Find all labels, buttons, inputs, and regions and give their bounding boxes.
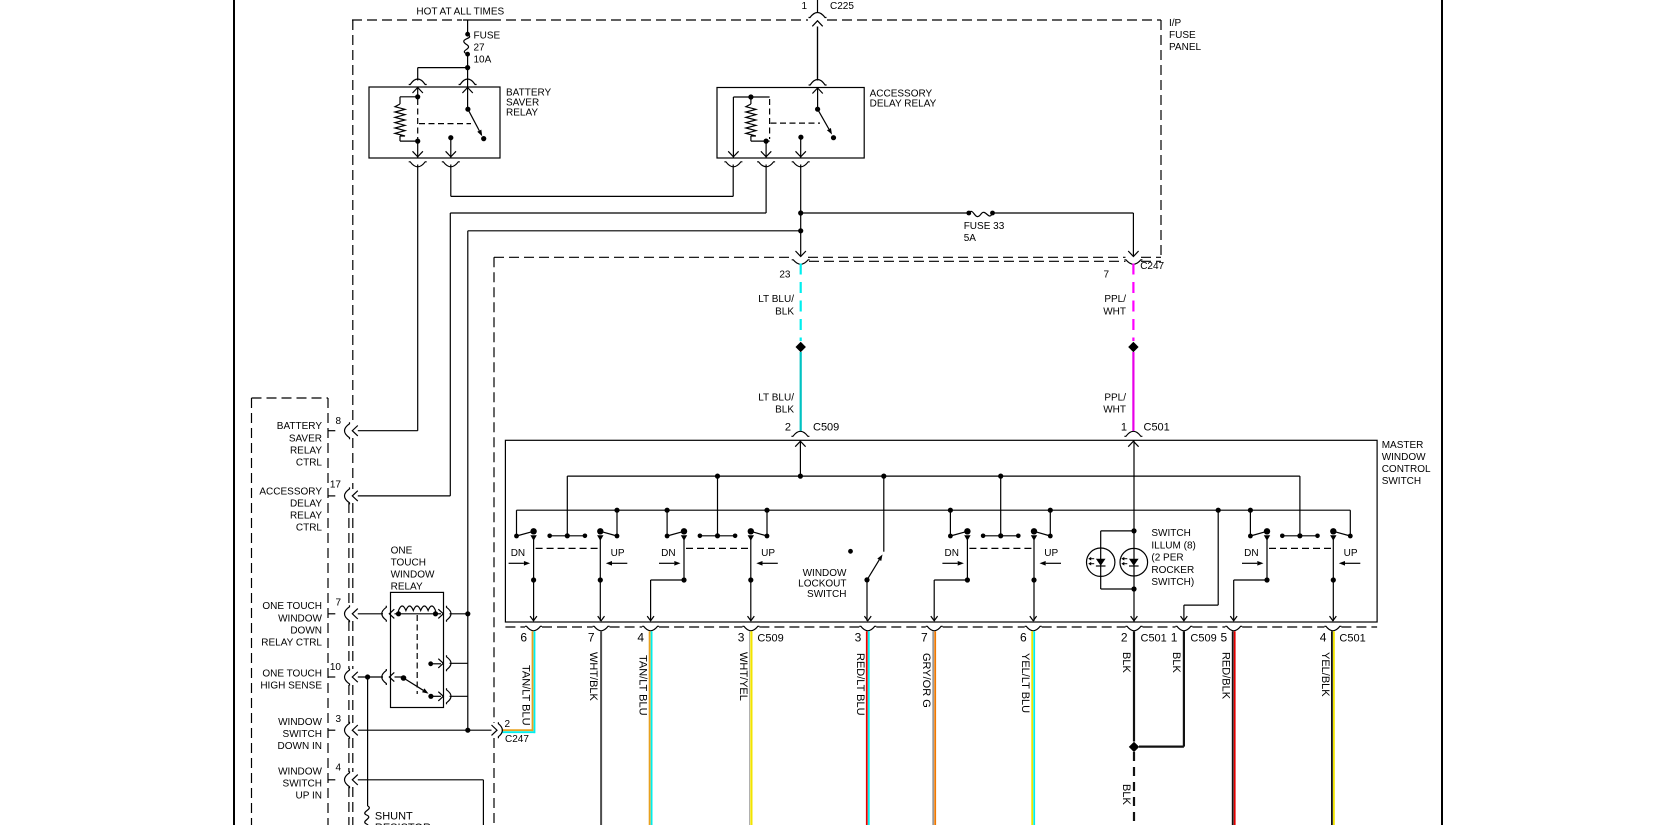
- svg-text:2: 2: [1121, 631, 1128, 645]
- svg-text:MASTER: MASTER: [1382, 440, 1424, 451]
- svg-text:SAVER: SAVER: [289, 433, 322, 444]
- svg-text:WHT: WHT: [1103, 306, 1126, 317]
- svg-text:BLK: BLK: [775, 306, 794, 317]
- svg-text:6: 6: [520, 631, 527, 645]
- svg-text:GRY/OR G: GRY/OR G: [920, 653, 932, 708]
- svg-text:C509: C509: [1190, 633, 1216, 645]
- svg-text:UP: UP: [1344, 548, 1358, 559]
- svg-text:7: 7: [921, 631, 928, 645]
- svg-text:27: 27: [474, 43, 486, 54]
- svg-text:DN: DN: [1244, 548, 1258, 559]
- svg-text:3: 3: [335, 714, 341, 725]
- svg-text:4: 4: [1320, 631, 1327, 645]
- svg-text:RED/LT BLU: RED/LT BLU: [854, 653, 866, 716]
- svg-text:BLK: BLK: [1120, 784, 1132, 805]
- svg-text:TAN/LT BLU: TAN/LT BLU: [637, 655, 649, 716]
- svg-text:C501: C501: [1144, 422, 1170, 434]
- svg-text:6: 6: [1020, 631, 1027, 645]
- svg-text:CTRL: CTRL: [296, 458, 323, 469]
- svg-text:UP: UP: [1044, 548, 1058, 559]
- svg-text:PPL/: PPL/: [1104, 393, 1126, 404]
- svg-text:4: 4: [637, 631, 644, 645]
- svg-text:C501: C501: [1339, 633, 1365, 645]
- svg-text:FUSE: FUSE: [474, 31, 501, 42]
- svg-text:DN: DN: [511, 548, 525, 559]
- svg-text:CTRL: CTRL: [296, 523, 323, 534]
- svg-text:5A: 5A: [964, 233, 977, 244]
- svg-text:RELAY: RELAY: [290, 511, 322, 522]
- svg-text:4: 4: [335, 763, 341, 774]
- svg-text:PPL/: PPL/: [1104, 294, 1126, 305]
- svg-text:WINDOW: WINDOW: [278, 717, 322, 728]
- svg-text:WINDOW: WINDOW: [1382, 452, 1426, 463]
- svg-text:RED/BLK: RED/BLK: [1220, 652, 1232, 700]
- svg-text:3: 3: [855, 631, 862, 645]
- svg-text:ILLUM (8): ILLUM (8): [1151, 540, 1195, 551]
- svg-text:SWITCH: SWITCH: [1151, 528, 1190, 539]
- svg-text:DOWN IN: DOWN IN: [278, 741, 322, 752]
- svg-text:ONE TOUCH: ONE TOUCH: [262, 668, 322, 679]
- svg-text:1: 1: [801, 1, 807, 12]
- svg-text:RELAY: RELAY: [506, 108, 538, 119]
- svg-text:SWITCH: SWITCH: [1382, 476, 1421, 487]
- svg-text:WHT: WHT: [1103, 405, 1126, 416]
- svg-text:YEL/LT BLU: YEL/LT BLU: [1019, 653, 1031, 713]
- svg-text:SWITCH: SWITCH: [283, 729, 322, 740]
- svg-text:DELAY RELAY: DELAY RELAY: [870, 98, 937, 109]
- svg-text:WINDOW: WINDOW: [803, 568, 847, 579]
- svg-text:WINDOW: WINDOW: [391, 570, 435, 581]
- svg-text:FUSE 33: FUSE 33: [964, 221, 1005, 232]
- svg-text:DELAY: DELAY: [290, 498, 322, 509]
- svg-text:RELAY: RELAY: [290, 445, 322, 456]
- svg-text:10A: 10A: [474, 55, 492, 66]
- svg-text:WINDOW: WINDOW: [278, 613, 322, 624]
- svg-text:C501: C501: [1141, 633, 1167, 645]
- svg-text:10: 10: [330, 662, 342, 673]
- svg-text:LOCKOUT: LOCKOUT: [798, 579, 846, 590]
- svg-text:SWITCH: SWITCH: [807, 589, 846, 600]
- svg-text:WINDOW: WINDOW: [278, 767, 322, 778]
- svg-text:WHT/YEL: WHT/YEL: [737, 652, 749, 701]
- svg-text:DN: DN: [945, 548, 959, 559]
- svg-text:HIGH SENSE: HIGH SENSE: [260, 681, 322, 692]
- svg-text:1: 1: [1121, 422, 1127, 434]
- svg-text:LT BLU/: LT BLU/: [758, 294, 794, 305]
- svg-text:7: 7: [588, 631, 595, 645]
- svg-text:17: 17: [330, 480, 342, 491]
- svg-text:8: 8: [335, 416, 341, 427]
- svg-text:C247: C247: [1140, 261, 1164, 272]
- svg-text:BLK: BLK: [1170, 652, 1182, 673]
- svg-text:DOWN: DOWN: [290, 625, 322, 636]
- svg-text:2: 2: [785, 422, 791, 434]
- svg-text:RELAY: RELAY: [391, 582, 423, 593]
- svg-text:UP: UP: [761, 548, 775, 559]
- svg-text:BLK: BLK: [1120, 652, 1132, 673]
- svg-text:HOT AT ALL TIMES: HOT AT ALL TIMES: [416, 7, 504, 18]
- svg-text:(2 PER: (2 PER: [1151, 553, 1183, 564]
- svg-text:BATTERY: BATTERY: [277, 421, 323, 432]
- svg-text:RELAY CTRL: RELAY CTRL: [261, 638, 322, 649]
- svg-text:1: 1: [1171, 631, 1178, 645]
- svg-text:C247: C247: [505, 734, 529, 745]
- svg-text:SWITCH): SWITCH): [1151, 577, 1194, 588]
- svg-text:CONTROL: CONTROL: [1382, 464, 1431, 475]
- svg-text:LT BLU/: LT BLU/: [758, 393, 794, 404]
- svg-text:TAN/LT BLU: TAN/LT BLU: [520, 665, 532, 726]
- svg-text:ACCESSORY: ACCESSORY: [259, 486, 322, 497]
- svg-text:5: 5: [1221, 631, 1228, 645]
- svg-text:ONE: ONE: [391, 546, 413, 557]
- svg-text:C225: C225: [830, 1, 854, 12]
- svg-text:SWITCH: SWITCH: [283, 779, 322, 790]
- svg-text:ROCKER: ROCKER: [1151, 565, 1194, 576]
- svg-text:I/P: I/P: [1169, 18, 1182, 29]
- svg-text:DN: DN: [661, 548, 675, 559]
- svg-text:7: 7: [1103, 269, 1109, 280]
- svg-text:YEL/BLK: YEL/BLK: [1319, 652, 1331, 697]
- svg-text:C509: C509: [813, 422, 839, 434]
- svg-text:3: 3: [738, 631, 745, 645]
- svg-text:SHUNT: SHUNT: [375, 810, 413, 822]
- svg-text:2: 2: [505, 719, 511, 730]
- svg-text:PANEL: PANEL: [1169, 42, 1201, 53]
- svg-text:BLK: BLK: [775, 405, 794, 416]
- svg-text:UP IN: UP IN: [296, 791, 323, 802]
- svg-text:C509: C509: [757, 633, 783, 645]
- svg-text:7: 7: [335, 598, 341, 609]
- svg-text:UP: UP: [611, 548, 625, 559]
- svg-text:FUSE: FUSE: [1169, 30, 1196, 41]
- svg-text:23: 23: [779, 269, 791, 280]
- svg-text:TOUCH: TOUCH: [391, 558, 426, 569]
- svg-text:WHT/BLK: WHT/BLK: [587, 652, 599, 702]
- svg-text:ONE TOUCH: ONE TOUCH: [262, 601, 322, 612]
